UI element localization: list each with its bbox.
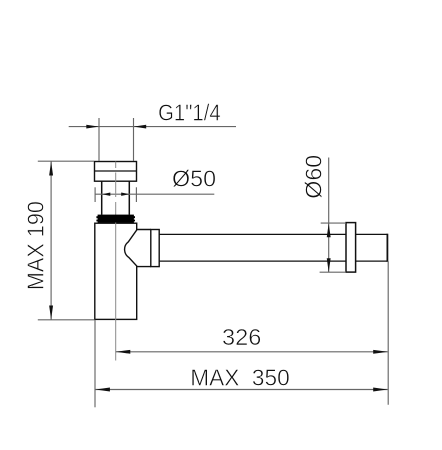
- svg-text:MAX 350: MAX 350: [190, 365, 290, 391]
- dimension o60 line: [328, 158, 330, 273]
- dimension o60 bottom arrow: [327, 258, 331, 272]
- dimension o50 right extension line: [135, 187, 137, 202]
- tailpiece tube left wall: [101, 181, 103, 215]
- dimension o50 right arrow: [121, 193, 129, 196]
- centerline vertical axis: [115, 162, 117, 361]
- svg-text:326: 326: [222, 324, 261, 350]
- dimension MAX 350 right arrow: [373, 388, 388, 392]
- dimension MAX 350 left extension line: [94, 320, 96, 408]
- dimension MAX 350 left arrow: [95, 388, 110, 392]
- dimension G1"1/4 left extension line: [98, 118, 100, 161]
- dimension 326 right arrow: [373, 350, 388, 354]
- nut top: [95, 162, 137, 182]
- svg-text:MAX 190: MAX 190: [23, 201, 49, 290]
- horizontal tube top edge: [159, 233, 346, 235]
- dimension o60 top arrow: [327, 223, 331, 237]
- seal ring: [98, 215, 134, 223]
- svg-text:G1"1/4: G1"1/4: [158, 99, 221, 125]
- elbow outlet: [125, 230, 151, 267]
- tailpiece tube right wall: [128, 181, 130, 215]
- dimension o50 left extension line: [94, 187, 96, 202]
- svg-text:Ø50: Ø50: [172, 166, 216, 192]
- horizontal tube right end: [386, 234, 388, 262]
- dimension MAX 190 top arrow: [49, 161, 53, 175]
- dimension MAX 190 bottom extension line: [38, 319, 95, 321]
- svg-text:Ø60: Ø60: [301, 155, 327, 199]
- seal ring thread notches: [96, 216, 135, 218]
- dimension G1"1/4 right extension line: [133, 118, 135, 161]
- dimension MAX 190 bottom arrow: [49, 306, 53, 320]
- elbow nut: [151, 230, 159, 267]
- nut mid line: [95, 170, 137, 172]
- dimension MAX 190 line: [50, 161, 52, 320]
- dimension o50 left arrow: [102, 193, 110, 196]
- trap body: [95, 223, 137, 319]
- dimension 326 left arrow: [116, 350, 131, 354]
- dimension G1"1/4 line: [69, 126, 236, 128]
- dimension o50 line: [96, 193, 215, 195]
- dimension o60 top extension line: [321, 222, 346, 224]
- dimension right extension line from tube end: [387, 261, 389, 405]
- dimension 326 line: [116, 351, 388, 353]
- horizontal tube bottom edge: [159, 260, 346, 262]
- wall flange: [346, 223, 356, 273]
- dimension G1"1/4 right arrow: [134, 125, 147, 129]
- dimension MAX 350 line: [95, 389, 387, 391]
- dimension G1"1/4 left arrow: [86, 125, 99, 129]
- dimension MAX 190 top extension line: [38, 160, 94, 162]
- dimension o60 bottom extension line: [320, 271, 346, 273]
